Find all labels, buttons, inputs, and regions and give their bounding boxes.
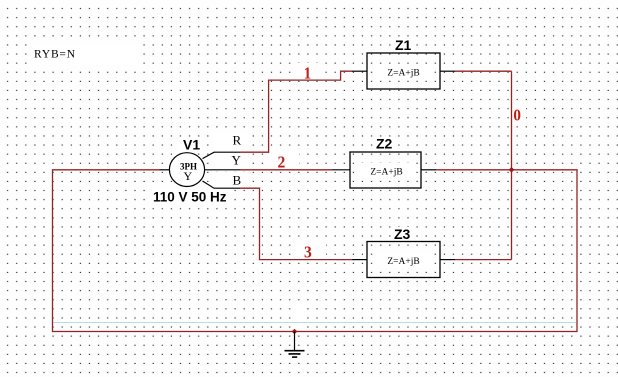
label background B xyxy=(212,172,248,187)
V1 source Y pin xyxy=(205,169,240,171)
wire net3 Z3 right stub red xyxy=(455,259,512,261)
V1 source B pin xyxy=(203,181,241,188)
wire node0 vertical between Z1 and Z3 rows xyxy=(511,71,513,259)
svg-text:Z1: Z1 xyxy=(395,37,412,53)
svg-text:Y: Y xyxy=(183,169,192,183)
label background Z=A+jB of Z3 xyxy=(374,252,433,268)
wire net1 R-phase red: vertical + top run to Z1 xyxy=(240,71,352,152)
label background node 3 xyxy=(297,243,326,258)
svg-text:110 V 50 Hz: 110 V 50 Hz xyxy=(153,190,227,205)
junction node0 at Z2 xyxy=(509,167,515,173)
svg-text:3: 3 xyxy=(304,243,312,262)
Z2 left pin xyxy=(332,169,350,171)
Z3 left pin xyxy=(352,259,367,261)
wire net2 Y-phase red middle run xyxy=(240,169,332,171)
impedance Z2 box xyxy=(350,152,421,188)
svg-text:RYB=N: RYB=N xyxy=(34,48,76,60)
Z1 right pin xyxy=(440,70,455,72)
label background node 0 xyxy=(512,103,526,126)
Z1 left pin xyxy=(352,70,367,72)
label background V1 xyxy=(178,137,201,151)
label background Z=A+jB of Z1 xyxy=(374,64,433,79)
ground bar 3 xyxy=(292,356,297,358)
ground bar 1 xyxy=(285,350,305,352)
junction ground on bottom wire xyxy=(292,329,298,335)
wire net2 Z2 right to junction xyxy=(436,169,512,171)
impedance Z1 box xyxy=(367,53,440,89)
svg-text:Y: Y xyxy=(232,153,242,168)
ground bar 2 xyxy=(289,353,301,355)
impedance Z3 box xyxy=(367,242,440,278)
svg-text:2: 2 xyxy=(278,153,286,172)
label background R xyxy=(212,132,248,149)
svg-text:Z=A+jB: Z=A+jB xyxy=(387,69,419,79)
V1 three-phase source circle xyxy=(169,153,204,187)
V1 source R pin xyxy=(203,152,241,158)
wire net1 Z1 right to node0 vertical xyxy=(455,70,512,72)
svg-text:Z3: Z3 xyxy=(394,226,411,242)
page boundary cyan line xyxy=(53,322,576,324)
label background Z=A+jB of Z2 xyxy=(357,163,415,178)
svg-text:Z2: Z2 xyxy=(376,136,393,152)
ground stem xyxy=(294,332,296,351)
svg-text:1: 1 xyxy=(304,64,311,83)
svg-text:0: 0 xyxy=(513,106,521,125)
svg-text:Z=A+jB: Z=A+jB xyxy=(387,257,419,267)
wire net3 B-phase red down run to Z3 xyxy=(240,188,352,259)
label background Y xyxy=(211,152,248,167)
label background Z1 xyxy=(392,38,416,53)
label background Z3 xyxy=(391,227,415,242)
svg-text:B: B xyxy=(233,172,242,187)
label background node 1 xyxy=(297,63,325,80)
svg-text:Z=A+jB: Z=A+jB xyxy=(370,167,402,177)
label background RYB=N xyxy=(33,44,141,65)
svg-text:R: R xyxy=(233,133,242,148)
wire net0 outer loop xyxy=(53,170,578,332)
label background node 2 xyxy=(269,151,299,168)
V1 source left pin black xyxy=(160,169,170,171)
label background hidden ground label xyxy=(295,302,306,330)
Z2 right pin xyxy=(421,169,436,171)
svg-text:V1: V1 xyxy=(183,137,200,153)
label background Z2 xyxy=(373,137,397,152)
Z3 right pin xyxy=(440,259,455,261)
label background 110 V 50 Hz xyxy=(151,189,229,203)
